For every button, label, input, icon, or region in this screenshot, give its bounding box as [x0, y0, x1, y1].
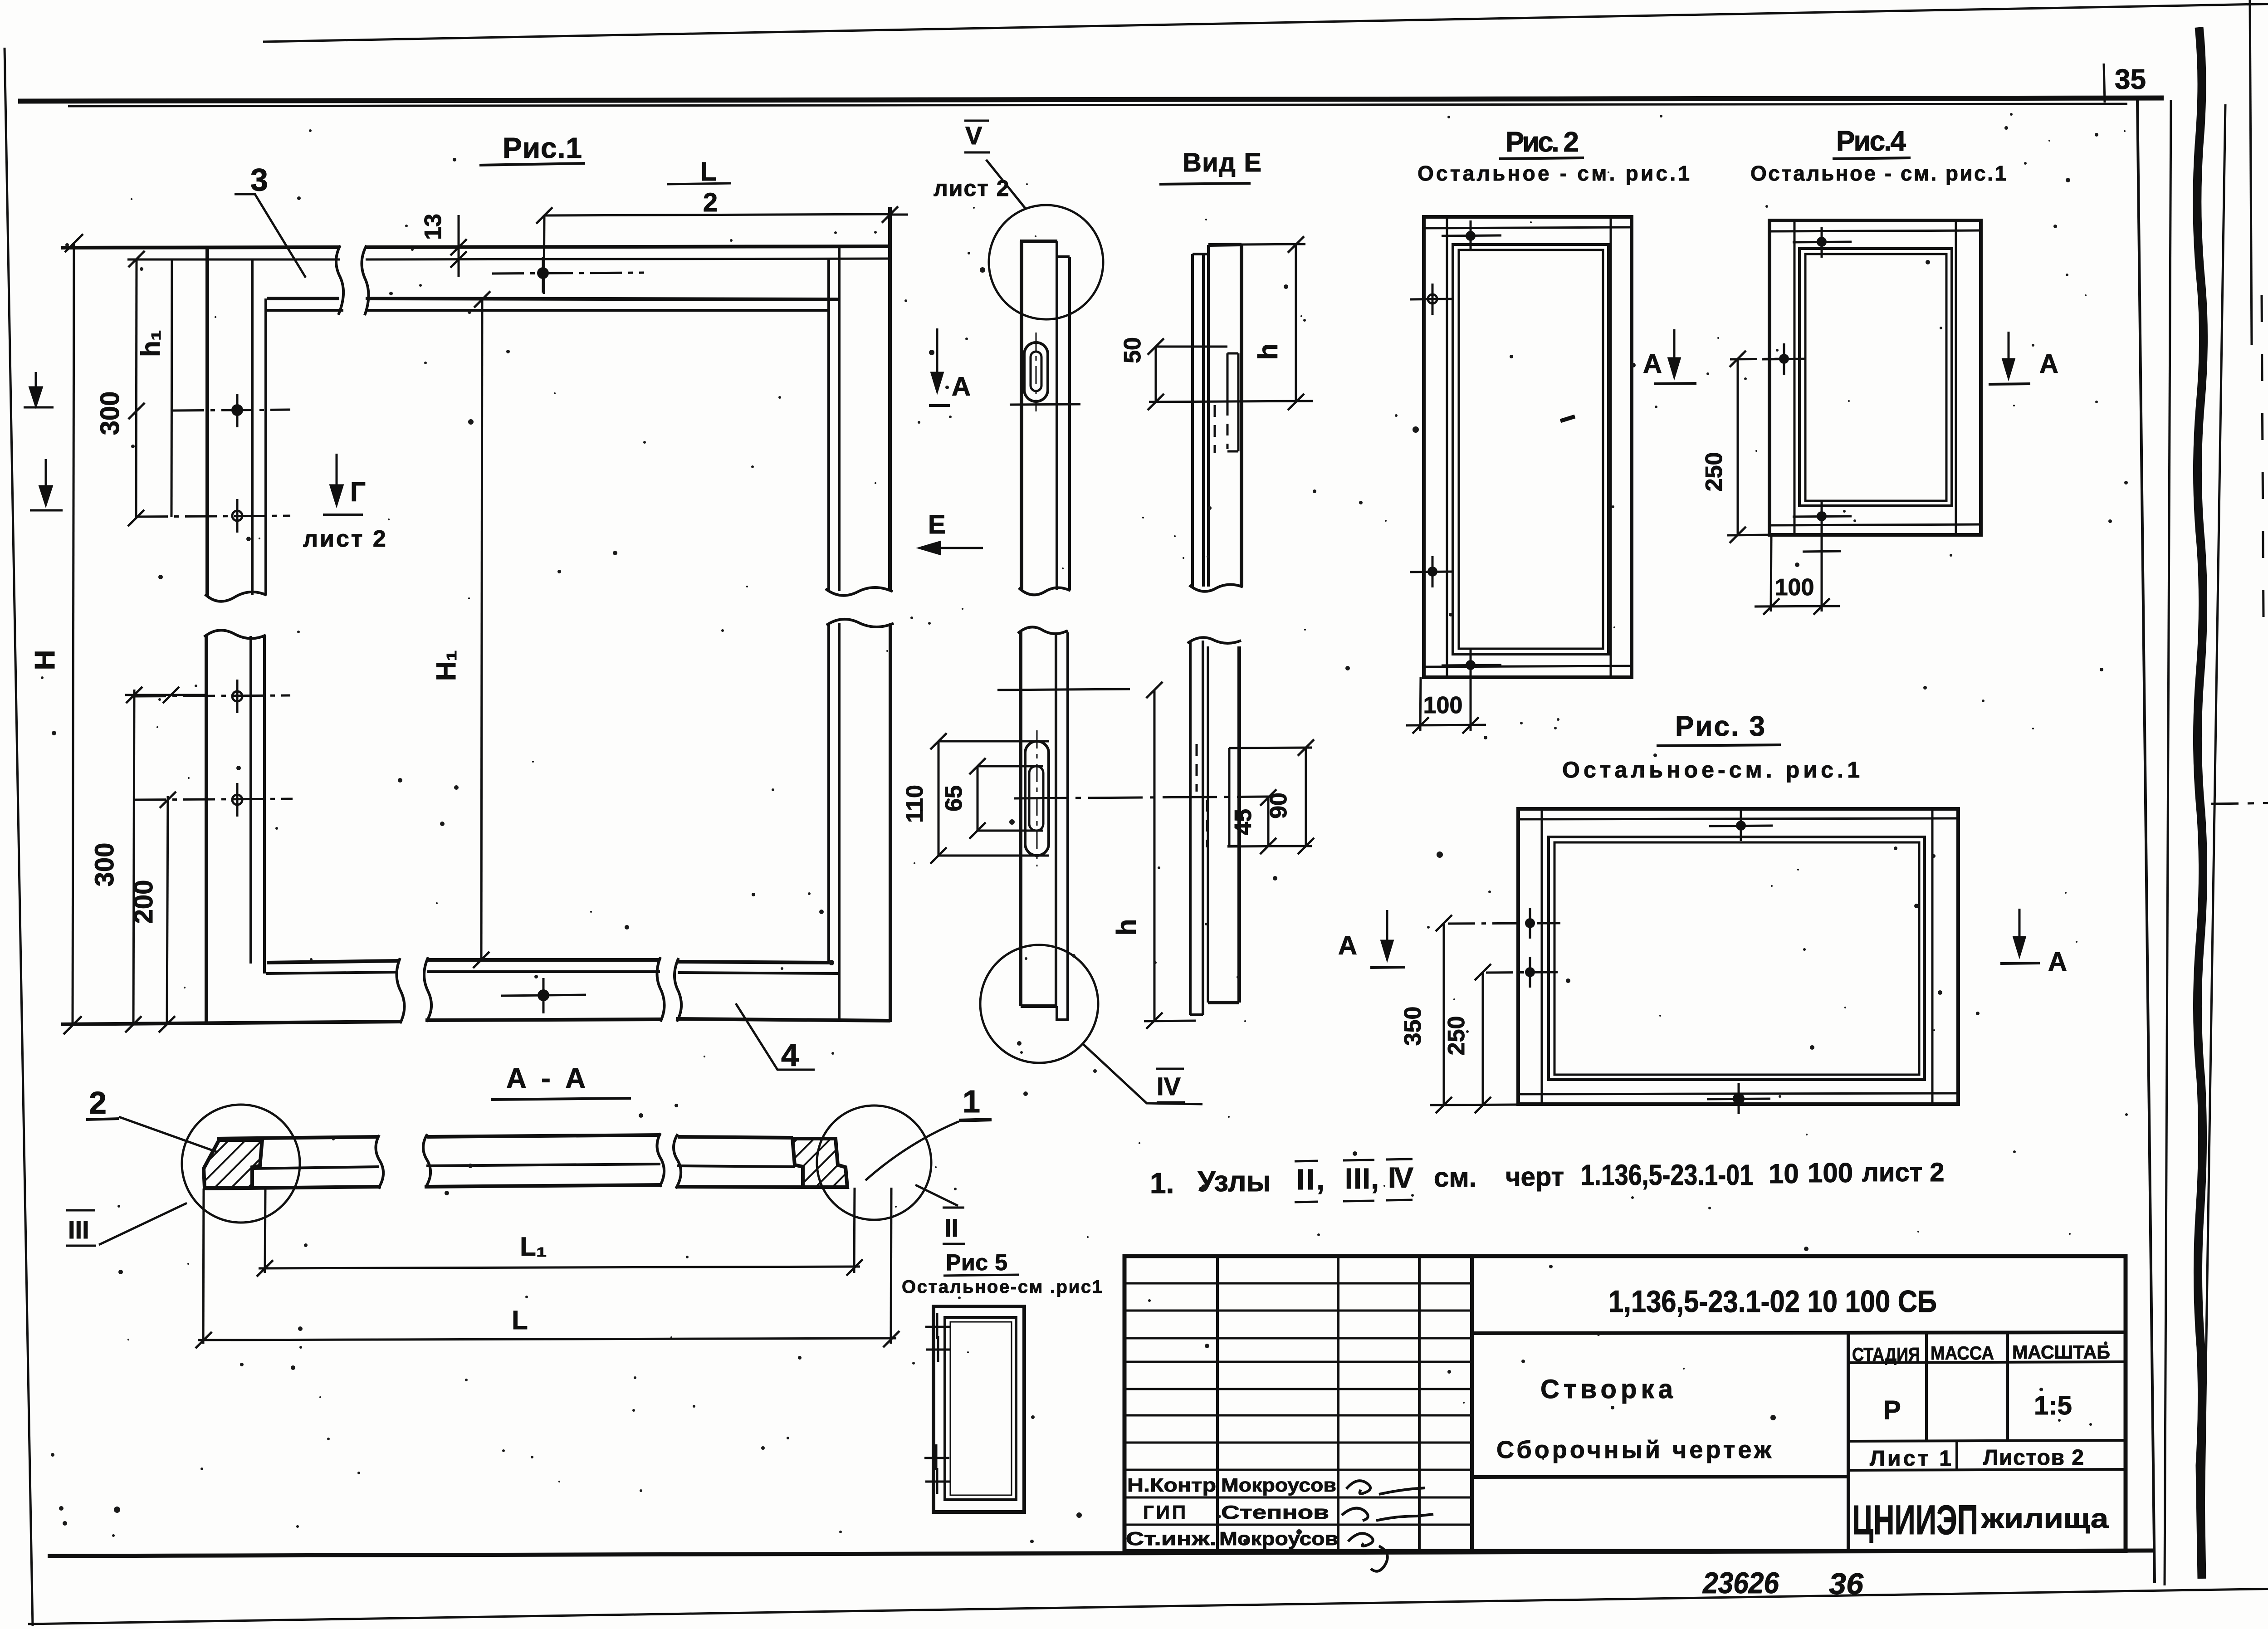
mark G arrow — [331, 454, 342, 504]
stile bar upper outer line — [1020, 241, 1023, 590]
binding black bar — [2197, 27, 2204, 1579]
titleblock small table rows — [1124, 1283, 1472, 1525]
fig5 tick 4 — [925, 1468, 950, 1494]
part 2 leader — [119, 1117, 218, 1152]
svg-text:Остальное - см. рис.1: Остальное - см. рис.1 — [1417, 161, 1690, 185]
dimension L/2 left tick — [536, 207, 552, 224]
fig1 right stile outer — [888, 207, 892, 591]
fig1 bottom rail second line piece3 — [678, 973, 839, 973]
right margin thin line partial — [2262, 295, 2263, 617]
section bar piece2 bottom edge — [425, 1185, 662, 1187]
fig3 bottom ext line — [1430, 1105, 1518, 1105]
titleblock nkontr signature — [1346, 1481, 1425, 1494]
viewE bar upper main right — [1240, 245, 1243, 586]
svg-text:h₁: h₁ — [136, 330, 166, 357]
svg-text:1,136,5-23.1-02 10 100 СБ: 1,136,5-23.1-02 10 100 СБ — [1608, 1284, 1937, 1319]
titleblock gip signature — [1342, 1508, 1433, 1521]
note numeral III underline — [1343, 1201, 1374, 1201]
section bar piece2 break wave left — [423, 1134, 430, 1188]
note numeral II overline — [1295, 1161, 1318, 1161]
fig1 bottom rail top edge piece3 — [678, 962, 829, 963]
svg-text:35: 35 — [2115, 64, 2146, 95]
section line through stile bar — [1010, 404, 1080, 405]
fig1 top rail second line left piece — [127, 259, 340, 261]
fig3 bottom band line — [1518, 1093, 1958, 1094]
detail V overline — [964, 120, 989, 122]
fig2 left band line — [1446, 217, 1448, 677]
dimension L/2 line — [544, 214, 890, 215]
svg-text:Н.Контр: Н.Контр — [1127, 1474, 1216, 1496]
svg-text:L: L — [512, 1306, 528, 1335]
titleblock small table col4 — [1418, 1256, 1421, 1551]
viewE bar upper left strip line2 — [1202, 254, 1205, 587]
section bar piece1 front line — [252, 1167, 379, 1169]
fig1 top rail outer edge right piece — [366, 246, 890, 247]
mark G underline — [323, 514, 363, 516]
left mark arrow 2 — [30, 459, 63, 510]
detail II leader — [915, 1185, 958, 1206]
detail II overline — [943, 1207, 964, 1209]
section molding 2 hatched — [204, 1140, 262, 1188]
svg-text:Узлы: Узлы — [1198, 1165, 1271, 1198]
fastener F5 top rail — [492, 257, 644, 293]
dimension h upper line — [1295, 245, 1297, 402]
viewE slot lower solid — [1227, 748, 1239, 846]
svg-text:250: 250 — [1443, 1016, 1470, 1056]
fig2 right band line — [1610, 217, 1612, 677]
mark A upper bar — [929, 404, 950, 407]
fig4 dim 100 ext right — [1821, 532, 1823, 611]
fig3 right band line — [1931, 809, 1934, 1104]
stile bar lower outer line — [1019, 631, 1022, 1006]
fig2 mark A bar — [1654, 383, 1696, 384]
viewE bar lower main left — [1207, 646, 1209, 1003]
fig1 bottom rail break wave 3 — [657, 957, 664, 1022]
section bar piece2 top edge — [427, 1135, 660, 1137]
fig5 tick 3 — [924, 1444, 949, 1470]
viewE slot upper dashed part — [1227, 404, 1229, 449]
stile bar lower right line — [1066, 632, 1069, 1020]
svg-text:Остальное-см .рис1: Остальное-см .рис1 — [902, 1277, 1102, 1297]
dimension 300 lower tick top — [126, 687, 142, 703]
svg-text:жилища: жилища — [1981, 1503, 2109, 1534]
stile bar lower strip bottom — [1057, 1006, 1069, 1020]
fig1 top rail outer edge left piece — [61, 247, 340, 248]
dimension h lower line — [1154, 690, 1156, 1021]
fig3 mark A right bar — [2000, 963, 2040, 964]
viewE bar lower left strip line2 — [1202, 641, 1204, 1015]
note numeral II underline — [1295, 1202, 1318, 1202]
dimension 50 line — [1155, 347, 1157, 402]
mark A lower arrow — [1382, 910, 1393, 959]
mark A lower bar — [1370, 967, 1405, 968]
detail IV underline — [1157, 1101, 1185, 1104]
svg-text:Остальное-см. рис.1: Остальное-см. рис.1 — [1562, 757, 1860, 783]
svg-text:h: h — [1111, 919, 1142, 936]
svg-text:300: 300 — [90, 843, 119, 887]
svg-text:II,: II, — [1296, 1163, 1325, 1196]
dimension 200 tick top — [160, 792, 176, 808]
fig3 dim 250 ticks — [1475, 964, 1491, 980]
dimension h lower ext — [1144, 1021, 1196, 1021]
fig3 top band line — [1518, 818, 1958, 819]
fig1 title underline — [479, 163, 585, 165]
fig4 right band line — [1955, 220, 1957, 535]
fig1 bottom rail break wave 1 — [396, 958, 404, 1023]
dimension L line — [198, 1338, 896, 1340]
detail III underline — [66, 1245, 96, 1247]
fig4 mark A arrow — [2003, 332, 2014, 377]
titleblock small table col3 — [1337, 1256, 1339, 1551]
fig1 bottom rail second line piece2 — [427, 970, 660, 973]
stile bar upper notch — [1057, 241, 1070, 257]
fig1 left stile inner upper — [251, 260, 254, 595]
fig4 fastener left — [1762, 343, 1805, 375]
viewE bar upper main left — [1207, 245, 1210, 587]
fig4 fastener bottom tick — [1803, 551, 1841, 552]
dimension L1 ext left — [265, 1189, 265, 1273]
dimension L ticks — [196, 1332, 212, 1348]
fig4 dim 100 ticks — [1763, 598, 1779, 615]
dimension h1 bottom ref line — [125, 694, 206, 696]
svg-text:1.136,5-23.1-01: 1.136,5-23.1-01 — [1581, 1159, 1753, 1191]
dimension 65 ext top — [978, 765, 1043, 768]
section bar piece1 top edge — [217, 1137, 379, 1139]
svg-text:2: 2 — [89, 1085, 107, 1120]
fig2 ink speck — [1560, 416, 1575, 421]
fig1 right stile outer lower — [889, 623, 892, 1022]
svg-text:10: 10 — [1769, 1159, 1799, 1189]
dimension 13 ext line — [458, 215, 460, 277]
titleblock stage header bottom — [1848, 1362, 2126, 1363]
fig4 title underline — [1833, 158, 1911, 159]
fig2 fastener left upper — [1410, 284, 1454, 315]
fig1 left stile outer lower — [205, 635, 208, 1023]
paper bottom edge — [28, 1589, 2268, 1624]
fig5 tick 1 — [925, 1313, 950, 1339]
svg-text:Остальное - см. рис.1: Остальное - см. рис.1 — [1750, 161, 2006, 185]
dimension 300 upper line — [136, 259, 137, 518]
fig1 right stile rabbet lower — [838, 623, 841, 1021]
svg-text:IV: IV — [1157, 1072, 1181, 1101]
stile bar upper top edge — [1020, 240, 1057, 243]
fig1 left stile rabbet lower — [263, 636, 266, 973]
fig2 outer frame — [1424, 217, 1632, 677]
fig4 dim 250 line — [1737, 359, 1739, 535]
dimension 110 ext bottom — [938, 855, 1049, 857]
fig3 dim 350 ticks — [1436, 915, 1452, 931]
svg-text:h: h — [1253, 343, 1283, 360]
svg-text:Вид Е: Вид Е — [1183, 148, 1261, 177]
dimension h upper ticks — [1288, 236, 1304, 253]
detail IV leader — [1082, 1043, 1202, 1104]
detail IV circle — [980, 945, 1098, 1063]
svg-text:4: 4 — [781, 1037, 799, 1073]
fig1 top rail bottom edge left — [267, 297, 339, 300]
svg-text:A - A: A - A — [506, 1063, 586, 1094]
bottom dim ticks — [125, 1016, 142, 1032]
dimension 45 ticks — [1260, 789, 1276, 806]
dimension L/2 left ext — [544, 215, 544, 294]
svg-text:1: 1 — [963, 1084, 980, 1119]
slot upper centerline — [1036, 333, 1037, 411]
svg-text:лист 2: лист 2 — [1862, 1158, 1945, 1187]
dimension H1 line — [481, 299, 482, 960]
svg-text:Рис.1: Рис.1 — [503, 132, 582, 164]
fig2 fastener top — [1442, 220, 1501, 251]
fig2 top band line — [1424, 227, 1632, 228]
svg-text:Рис.4: Рис.4 — [1836, 126, 1906, 157]
svg-text:1.: 1. — [1150, 1167, 1174, 1199]
svg-text:III: III — [68, 1215, 89, 1244]
svg-text:СТАДИЯ: СТАДИЯ — [1852, 1344, 1920, 1365]
dimension 65 ext bottom — [978, 830, 1043, 832]
titleblock list row bottom — [1848, 1469, 2126, 1470]
dimension h upper ext top — [1242, 244, 1305, 245]
fig2 mark A arrow — [1669, 329, 1680, 377]
svg-text:ГИП: ГИП — [1143, 1502, 1186, 1523]
fig4 dim 100 line — [1755, 606, 1840, 607]
dimension H bottom tick — [64, 1016, 82, 1034]
right margin horizontal dash — [2211, 803, 2268, 804]
fig3 mark A right arrow — [2014, 909, 2025, 955]
dimension L ext left — [203, 1189, 204, 1344]
dimension 300 upper tick bottom — [128, 510, 144, 526]
dimension 110 ext top — [938, 740, 1049, 743]
stile bar upper inner line — [1056, 257, 1058, 590]
section bar piece1 break wave — [376, 1135, 383, 1189]
section line through viewE bar — [1149, 401, 1313, 402]
titleblock doc row bottom — [1472, 1332, 2126, 1333]
dimension 90 ext bottom — [1227, 846, 1312, 846]
section bar piece1 bottom edge — [204, 1187, 381, 1189]
titleblock list row top — [1848, 1440, 2126, 1441]
fig1 right stile break wave bottom — [826, 619, 894, 627]
detail III leader — [99, 1203, 187, 1245]
fig1 right stile rabbet upper — [838, 247, 841, 591]
fig1 right stile inner lower — [827, 623, 830, 963]
fig3 dim 350 line — [1443, 923, 1445, 1105]
svg-text:110: 110 — [902, 785, 928, 823]
fig1 right stile break wave top — [826, 587, 893, 596]
fig4 inner frame inner line — [1805, 254, 1946, 501]
frame right border line 2 — [2165, 100, 2171, 1585]
slot lower horizontal centerline — [1014, 797, 1271, 798]
svg-text:36: 36 — [1829, 1567, 1864, 1600]
fig2 dim 100 ext right — [1470, 680, 1472, 731]
svg-text:III,: III, — [1345, 1162, 1379, 1195]
section bar piece3 front line — [677, 1166, 795, 1167]
svg-text:Мокроусов: Мокроусов — [1221, 1474, 1336, 1496]
titleblock main divider vertical — [1847, 1333, 1850, 1551]
svg-text:черт: черт — [1505, 1162, 1564, 1192]
titleblock small table col2 — [1216, 1256, 1219, 1551]
viewE bar lower break wave — [1188, 637, 1241, 643]
dimension 65 ticks — [969, 758, 986, 774]
viewE bar lower left strip line1 — [1189, 641, 1192, 1015]
fig5 inner line — [950, 1322, 1012, 1495]
fig2 inner frame outer line — [1453, 245, 1608, 654]
fig1 top rail rabbet line left — [267, 309, 343, 312]
part 2 underline — [86, 1119, 119, 1120]
fig3 title underline — [1657, 745, 1781, 746]
fig1 left stile break wave bottom piece — [204, 630, 266, 638]
fig4 outer frame — [1769, 220, 1981, 535]
svg-text:лист 2: лист 2 — [303, 526, 388, 552]
svg-text:350: 350 — [1400, 1007, 1426, 1046]
titleblock list divider — [1955, 1441, 1958, 1470]
svg-text:A: A — [2039, 349, 2058, 379]
stile bar lower bottom edge — [1021, 1004, 1057, 1008]
svg-text:2: 2 — [703, 188, 718, 217]
slot lower inner — [1029, 766, 1043, 831]
svg-text:Листов 2: Листов 2 — [1983, 1446, 2084, 1470]
svg-text:ЦНИИЭП: ЦНИИЭП — [1852, 1497, 1978, 1543]
svg-text:Рис. 3: Рис. 3 — [1675, 711, 1765, 742]
note numeral IV overline — [1386, 1159, 1413, 1159]
svg-text:200: 200 — [129, 880, 158, 924]
stile bar lower break wave — [1018, 627, 1068, 634]
fig3 fastener top — [1709, 810, 1773, 841]
dimension L1 ticks — [257, 1260, 273, 1277]
dimension 13 tick bottom — [450, 251, 467, 268]
viewE bar upper break wave — [1189, 584, 1243, 591]
fig3 dim 250 line — [1482, 972, 1484, 1105]
fig1 top rail rabbet line right — [366, 309, 829, 312]
svg-text:H: H — [29, 650, 61, 670]
dimension 300 upper tick mid — [128, 403, 145, 419]
svg-text:Г: Г — [350, 477, 366, 507]
fig2 dim 100 line — [1406, 725, 1486, 725]
fig1 bottom rail break wave 4 — [675, 958, 681, 1022]
part 4 leader — [736, 1003, 815, 1070]
dimension 50 ext — [1156, 346, 1227, 348]
detail II underline — [943, 1243, 965, 1245]
titleblock stage col divider 2 — [2006, 1333, 2009, 1441]
dimension 13 tick top — [450, 239, 467, 255]
svg-text:H₁: H₁ — [431, 650, 461, 681]
fig1 left stile rabbet upper — [264, 298, 267, 595]
svg-text:A: A — [952, 372, 971, 401]
viewE slot lower hidden line1 — [1206, 800, 1208, 847]
fig1 left stile break wave top piece — [205, 592, 267, 602]
detail V circle — [989, 205, 1103, 319]
fig3 left band line — [1541, 809, 1543, 1104]
fastener F1 stile top — [172, 394, 290, 427]
mark A upper arrow — [932, 328, 943, 391]
mark E arrow — [920, 542, 983, 554]
note numeral III overline — [1343, 1160, 1374, 1160]
fig4 fastener top — [1793, 227, 1852, 258]
svg-text:Лист 1: Лист 1 — [1870, 1447, 1951, 1471]
fig1 right stile inner upper — [827, 259, 830, 591]
fig5 title underline — [943, 1275, 1019, 1276]
fig5 outer frame — [934, 1306, 1024, 1512]
view E underline — [1159, 183, 1251, 184]
fig4 dim 250 ext top — [1730, 359, 1785, 359]
detail circle II — [817, 1106, 931, 1220]
dimension L/2 right tick — [882, 206, 898, 223]
dimension h1 line — [171, 259, 172, 517]
dimension 110 ticks — [930, 733, 947, 749]
svg-text:Рис. 2: Рис. 2 — [1505, 127, 1579, 158]
fig4 dim 100 ext left — [1771, 535, 1771, 611]
fig1 top rail bottom edge right — [366, 298, 839, 299]
dimension H1 top tick — [474, 291, 490, 308]
svg-text:A: A — [2048, 947, 2067, 977]
stile bar upper break wave — [1019, 587, 1070, 595]
viewE bar upper left strip top — [1193, 253, 1208, 255]
svg-text:E: E — [928, 510, 946, 539]
fig2 dim 100 ext left — [1420, 677, 1421, 731]
svg-text:V: V — [965, 121, 982, 150]
fastener F6 bottom rail — [501, 978, 586, 1013]
frame top border second line — [68, 104, 2127, 106]
fig4 inner frame outer line — [1799, 249, 1952, 506]
titleblock stage col divider 1 — [1925, 1333, 1928, 1441]
dimension L/2 right overrun — [890, 214, 908, 216]
svg-text:см.: см. — [1434, 1162, 1476, 1193]
left mark arrow 1 — [24, 372, 54, 407]
detail V leader — [986, 160, 1026, 209]
fig1 top rail break wave left — [336, 245, 343, 315]
svg-text:L: L — [700, 157, 716, 186]
dimension H1 bottom tick — [473, 952, 489, 968]
titleblock outer box — [1124, 1256, 2126, 1551]
section bar piece3 break wave — [674, 1134, 681, 1189]
fig4 fastener bottom — [1793, 501, 1852, 532]
fig1 bottom rail break wave 2 — [424, 957, 431, 1022]
svg-text:3: 3 — [250, 162, 268, 197]
stile bar lower inner line — [1055, 632, 1057, 1006]
section bar piece2 front line — [426, 1164, 660, 1166]
svg-text:МАССА: МАССА — [1931, 1342, 1994, 1364]
fig3 fastener left upper — [1448, 908, 1560, 939]
svg-text:IV: IV — [1388, 1161, 1413, 1194]
svg-text:Р: Р — [1883, 1395, 1901, 1425]
svg-text:Степнов: Степнов — [1221, 1502, 1329, 1523]
fig4 top band line — [1769, 230, 1981, 231]
dimension 90 ext top — [1229, 748, 1312, 748]
fig4 mark A bar — [1989, 384, 2030, 384]
fig4 left band line — [1794, 220, 1796, 535]
svg-text:50: 50 — [1119, 337, 1146, 363]
fig5 tick 2 — [926, 1336, 951, 1362]
fastener F3 stile lower — [134, 680, 290, 713]
fig2 dim 100 ticks — [1413, 717, 1429, 734]
fig1 top rail break wave right — [362, 245, 368, 315]
fig2 fastener bottom — [1442, 650, 1501, 680]
svg-text:250: 250 — [1701, 452, 1727, 492]
dimension h1 bottom tick — [163, 687, 179, 703]
paper right crease — [2250, 0, 2252, 345]
dimension 200 line — [167, 796, 168, 1024]
detail III overline — [66, 1209, 95, 1212]
viewE bar lower strip bottom — [1190, 1013, 1203, 1016]
dimension 45 line — [1267, 797, 1270, 846]
svg-text:100: 100 — [1423, 692, 1463, 719]
titleblock stinzh signature — [1348, 1533, 1388, 1571]
frame top border thick — [18, 98, 2164, 101]
viewE slot lower hidden line2 — [1196, 744, 1198, 792]
dimension L/2 fraction bar — [667, 183, 731, 184]
section bar piece3 bottom edge — [676, 1187, 803, 1187]
svg-text:1:5: 1:5 — [2034, 1391, 2072, 1420]
svg-text:II: II — [944, 1213, 958, 1242]
part 3 leader — [235, 194, 306, 278]
svg-text:45: 45 — [1230, 809, 1256, 835]
dimension 300 upper tick top — [128, 251, 145, 267]
